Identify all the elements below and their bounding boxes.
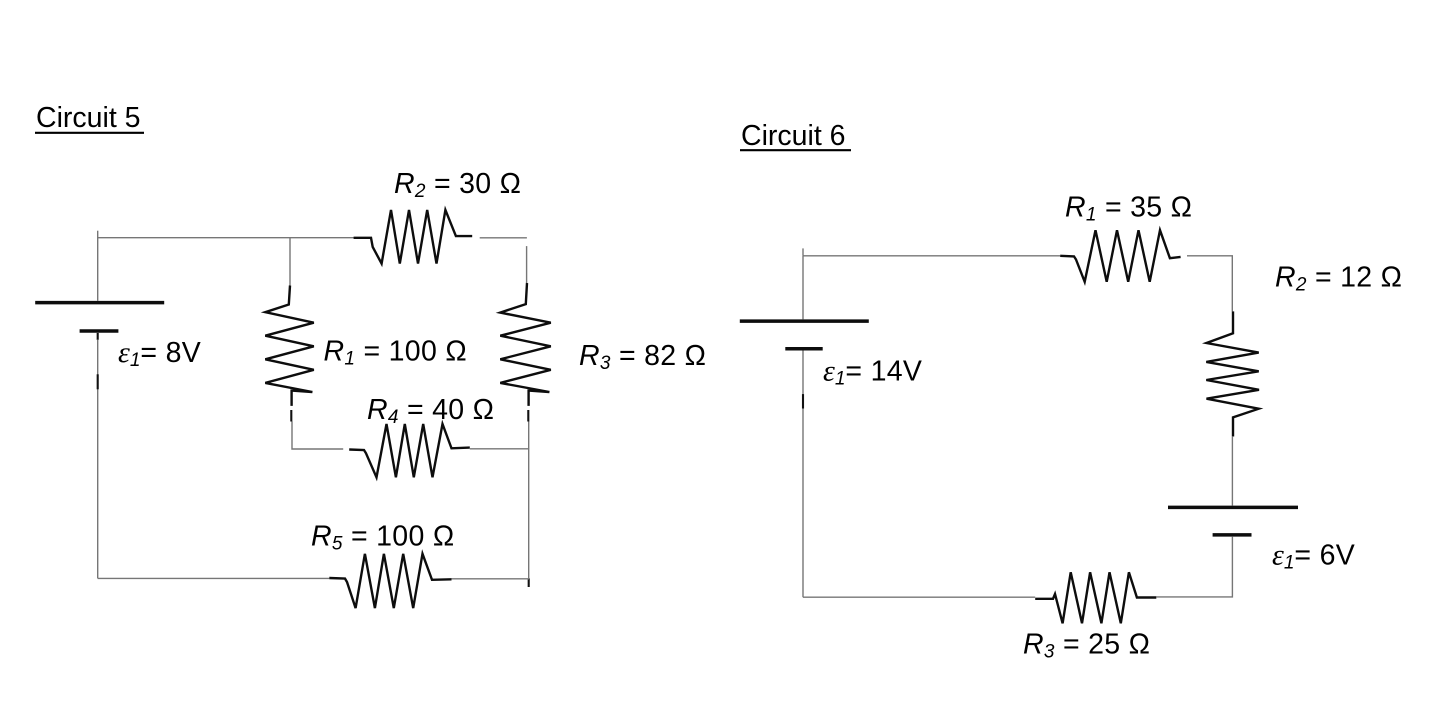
- wire: C5 bottom right segment: [452, 578, 530, 580]
- wire: C6 top right segment (R1 to corner): [1187, 256, 1232, 312]
- resistor R5 = 100 ohm (C5 bottom branch): [329, 554, 451, 608]
- svg-text:R2 = 30 Ω: R2 = 30 Ω: [394, 168, 521, 202]
- wire: C5 right vertical lower (R4 level to bottom wire): [528, 449, 530, 587]
- wire: C6 right vertical (R2 to battery 2): [1231, 437, 1233, 506]
- resistor R2 = 30 ohm (C5 top branch): [354, 210, 473, 264]
- battery E1 C5: long plate (+): [35, 301, 164, 305]
- resistor R4 = 40 ohm (C5 lower middle branch): [349, 424, 470, 477]
- svg-text:R3 = 82 Ω: R3 = 82 Ω: [579, 340, 706, 374]
- wire: C6 battery 2 to bottom wire: [1156, 537, 1232, 597]
- wire: C5 top horizontal (battery + to R2): [97, 231, 354, 238]
- node A: C5 top junction to R1: [289, 238, 291, 286]
- battery E2 C6: short plate (-): [1213, 533, 1252, 537]
- wire: R3 bottom lead to R4 level: [527, 410, 530, 449]
- wire: R4 right lead to right vertical: [470, 448, 529, 450]
- resistor R1 = 100 ohm (C5 middle branch, vertical): [265, 286, 314, 406]
- svg-text:Circuit 6: Circuit 6: [741, 120, 846, 152]
- title Circuit 6: [740, 120, 851, 152]
- svg-text:R1 = 35 Ω: R1 = 35 Ω: [1065, 192, 1192, 226]
- svg-text:R3 = 25 Ω: R3 = 25 Ω: [1023, 629, 1150, 663]
- wire: C5 top right segment (R2 to right corner): [480, 237, 527, 239]
- svg-text:R1 = 100 Ω: R1 = 100 Ω: [324, 336, 467, 370]
- wire: R1 bottom lead to R4 level: [291, 410, 343, 449]
- svg-text:ε1= 8V: ε1= 8V: [118, 336, 201, 371]
- wire: C6 left vertical upper (to battery long plate): [802, 256, 804, 319]
- svg-text:R5 = 100 Ω: R5 = 100 Ω: [311, 521, 454, 555]
- wire: C5 left vertical upper (to battery long plate): [97, 238, 99, 301]
- wire: C6 left vertical lower (battery - to bottom wire): [802, 351, 804, 598]
- svg-text:ε1= 14V: ε1= 14V: [823, 355, 922, 390]
- svg-text:Circuit 5: Circuit 5: [36, 102, 141, 134]
- wire: C6 top horizontal (battery + to R1): [803, 248, 1060, 255]
- battery E1 C6: long plate (+): [740, 319, 869, 323]
- battery E2 C6: long plate (+): [1168, 506, 1298, 510]
- title Circuit 5: [35, 102, 144, 134]
- wire: C5 right vertical upper (top wire to R3): [526, 246, 528, 283]
- svg-text:R2 = 12 Ω: R2 = 12 Ω: [1275, 262, 1402, 296]
- resistor R1 = 35 ohm (C6 top branch): [1060, 230, 1180, 282]
- svg-text:ε1= 6V: ε1= 6V: [1272, 539, 1355, 574]
- resistor R3 = 25 ohm (C6 bottom branch): [1035, 572, 1156, 623]
- battery E1 C6: short plate (-): [785, 347, 822, 351]
- wire: C6 bottom left segment: [803, 596, 1035, 598]
- svg-text:R4 = 40 Ω: R4 = 40 Ω: [367, 394, 494, 428]
- resistor R3 = 82 ohm (C5 right branch, vertical): [500, 283, 551, 406]
- resistor R2 = 12 ohm (C6 right branch, vertical): [1206, 311, 1259, 436]
- battery E1 C5: short plate (-): [80, 329, 119, 333]
- wire: C5 bottom left segment: [98, 577, 330, 579]
- wire: C5 left vertical lower (battery - to bottom wire): [97, 333, 99, 579]
